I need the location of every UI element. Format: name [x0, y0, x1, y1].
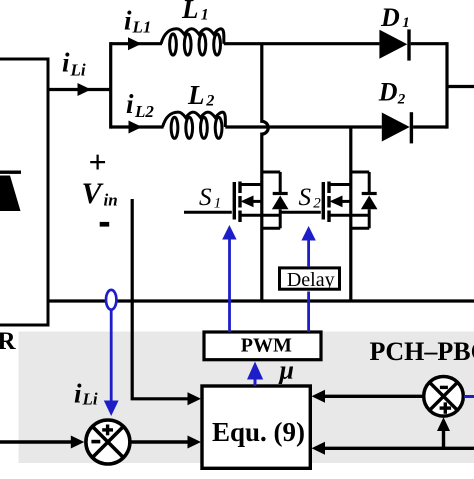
svg-text:L2: L2 [134, 102, 154, 121]
arrowhead iLi [78, 83, 92, 96]
svg-text:D: D [378, 77, 398, 106]
wire iLi from rectifier to split node [48, 88, 111, 91]
wire D2 to output rail [413, 125, 447, 128]
svg-text:1: 1 [214, 196, 222, 212]
wire branch 2 to L2 [111, 125, 164, 128]
Equ box [202, 386, 310, 468]
arrow summing junction 2 to Equ box [325, 395, 424, 398]
diode D2 [382, 113, 410, 142]
svg-text:i: i [62, 48, 70, 78]
svg-text:1: 1 [402, 15, 410, 31]
svg-text:V: V [82, 177, 105, 210]
svg-text:1: 1 [201, 7, 209, 24]
svg-text:in: in [104, 191, 118, 210]
svg-text:S: S [199, 184, 212, 211]
controller shaded region [19, 332, 474, 464]
arrow up into summing junction 2 [442, 430, 445, 448]
svg-text:D: D [380, 3, 400, 32]
svg-text:L: L [181, 0, 199, 24]
arrowhead iL2 [129, 121, 143, 134]
svg-text:2: 2 [205, 93, 214, 110]
blue input stub into summing junction 2 [464, 395, 474, 398]
inductor L1 [161, 29, 224, 55]
S1 drain vertical wire with hop over D2 wire [262, 44, 268, 301]
PWM box [204, 332, 321, 360]
blue gate drive arrow S1 [228, 239, 231, 332]
bottom rail [48, 299, 474, 302]
summing junction 1 [86, 420, 130, 464]
S2 drain vertical wire [349, 127, 352, 301]
transistor S2 [281, 172, 369, 222]
arrow summing junction 1 to Equ box [130, 440, 189, 443]
wire L2 to D2 [225, 125, 381, 128]
svg-text:Li: Li [70, 61, 86, 80]
svg-text:L1: L1 [132, 17, 152, 36]
svg-text:+: + [89, 144, 107, 180]
svg-text:Li: Li [82, 389, 98, 408]
output stub to load [447, 85, 474, 88]
svg-text:2: 2 [313, 196, 321, 212]
svg-text:i: i [74, 379, 82, 409]
body diode of S1 [262, 172, 289, 228]
Vin sense wire to controller [132, 199, 189, 399]
rectifier box [0, 59, 48, 325]
reference input arrow into summing junction 1 [0, 440, 71, 443]
current sensor on rail (blue) [106, 290, 116, 310]
bottom feedback line into Equ box [325, 447, 474, 450]
arrowhead iL1 [128, 37, 142, 50]
transistor S1 [184, 172, 280, 222]
svg-text:2: 2 [397, 91, 406, 107]
svg-text:R: R [0, 328, 17, 355]
diode cathode bar inside rectifier [0, 171, 21, 174]
svg-text:L: L [187, 80, 205, 110]
wire L1 to D1 [224, 42, 380, 45]
svg-text:Delay: Delay [287, 269, 335, 291]
delay box [280, 268, 340, 289]
body diode of S2 [351, 172, 378, 228]
summing junction 2 [424, 377, 464, 417]
blue gate drive arrow S2 (through delay) [307, 240, 310, 332]
diode D1 [379, 30, 407, 59]
wire D1 to output corner [411, 42, 447, 45]
label - of Vin [100, 222, 110, 227]
svg-text:S: S [299, 184, 312, 211]
svg-text:μ: μ [278, 355, 294, 384]
output vertical wire [445, 42, 448, 129]
split node vertical wire [109, 42, 112, 129]
wire branch 1 to L1 [111, 42, 162, 45]
blue mu arrow Equ to PWM [254, 378, 257, 386]
svg-text:i: i [126, 89, 134, 119]
svg-text:i: i [124, 6, 132, 36]
diode triangle inside rectifier [0, 176, 21, 212]
blue iLi measurement arrow [110, 310, 113, 401]
arrowhead Vin sense into Equ box [188, 392, 202, 405]
svg-text:PWM: PWM [241, 334, 292, 356]
inductor L2 [163, 112, 226, 138]
svg-text:PCH–PBC: PCH–PBC [370, 337, 474, 366]
svg-text:Equ. (9): Equ. (9) [212, 417, 305, 447]
